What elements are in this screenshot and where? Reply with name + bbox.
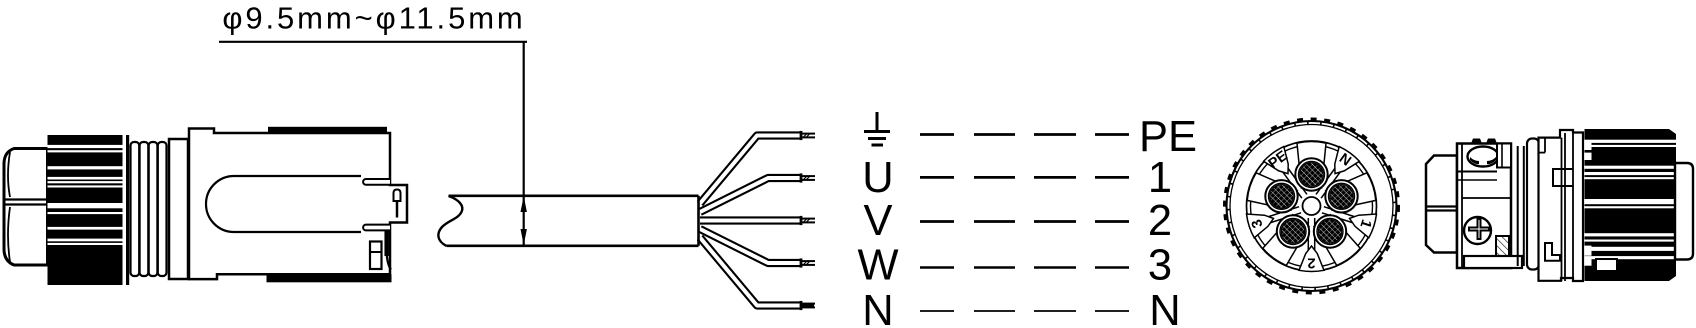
knurl shading <box>1393 214 1397 216</box>
socket pin 1 <box>1295 158 1327 190</box>
latch slot bottom <box>363 225 390 231</box>
phillips screw <box>1464 217 1491 244</box>
cable break curve <box>438 196 462 246</box>
svg-text:1: 1 <box>1148 154 1172 202</box>
right connector front block <box>1457 144 1511 269</box>
svg-text:2: 2 <box>1307 255 1315 271</box>
shell J hook <box>1545 243 1560 261</box>
latch pin stem <box>396 201 399 218</box>
body top black band <box>268 127 387 133</box>
cap bottom notch <box>1596 259 1617 271</box>
dashed link row 5 <box>920 310 954 312</box>
socket pin 3 <box>1314 215 1346 247</box>
center hole <box>1303 197 1321 215</box>
seal rings <box>1517 146 1519 266</box>
cable end edge <box>697 196 700 246</box>
screw boss ledge <box>1497 144 1511 168</box>
latch slot top <box>363 179 390 185</box>
wire 2 outline <box>700 178 800 212</box>
body cavity stadium <box>206 176 361 232</box>
right connector nose <box>1426 156 1457 253</box>
wire 4 outline <box>700 229 800 263</box>
latch pin head <box>394 190 401 202</box>
wire 3 outline <box>700 216 800 224</box>
wire 2 stripped tip <box>800 173 803 182</box>
svg-text:N: N <box>1149 287 1180 328</box>
front-view connector outer knurled ring <box>1227 121 1397 291</box>
latch bar <box>384 231 389 257</box>
latch block two-cell <box>370 242 382 270</box>
svg-text:U: U <box>862 154 893 202</box>
shell step box <box>1553 169 1573 186</box>
key darts <box>1264 147 1289 174</box>
svg-text:N: N <box>862 287 893 328</box>
left connector gland hex nut <box>4 149 48 266</box>
top screw slots <box>1471 139 1482 144</box>
dashed link row 2 <box>920 176 954 179</box>
insert outer rings <box>1247 141 1377 271</box>
top screw head (side) <box>1468 147 1499 167</box>
dimension arrows <box>521 196 527 212</box>
back cylinder <box>1675 163 1693 260</box>
svg-text:2: 2 <box>1148 197 1172 245</box>
shell front <box>1539 130 1584 281</box>
cap teeth notches <box>1585 143 1592 150</box>
knurl teeth <box>1225 119 1399 293</box>
right knurled cap <box>1585 129 1677 281</box>
hatched block <box>1496 236 1509 257</box>
dashed link row 4 <box>920 266 954 269</box>
dashed link row 1 <box>920 133 954 136</box>
wire 4 stripped tip <box>800 258 803 267</box>
wire 5 outline <box>700 238 800 306</box>
wire 1 outline <box>700 136 800 204</box>
left connector body <box>189 129 407 280</box>
wire 5 stripped tip <box>800 301 803 310</box>
svg-text:W: W <box>857 241 898 289</box>
socket pin 2 <box>1325 180 1357 212</box>
socket pin 5 <box>1265 180 1297 212</box>
bottom bar <box>1464 256 1522 268</box>
wire 1 stripped tip <box>800 131 803 140</box>
dimension leader line <box>219 41 527 43</box>
dashed link row 3 <box>920 220 954 223</box>
ground symbol PE wire <box>876 112 879 132</box>
svg-text:3: 3 <box>1148 241 1172 289</box>
svg-text:φ9.5mm~φ11.5mm: φ9.5mm~φ11.5mm <box>222 1 525 36</box>
left connector flange <box>169 139 188 279</box>
left connector knurled cap <box>48 135 123 285</box>
socket pin 4 <box>1277 215 1309 247</box>
wire 3 stripped tip <box>800 216 803 225</box>
body bottom black band <box>267 274 392 282</box>
left connector thread ribs <box>131 142 140 276</box>
cable sheath <box>447 196 699 246</box>
svg-text:V: V <box>863 197 892 245</box>
chamber walls <box>1283 172 1302 198</box>
socket housings <box>1297 142 1326 189</box>
